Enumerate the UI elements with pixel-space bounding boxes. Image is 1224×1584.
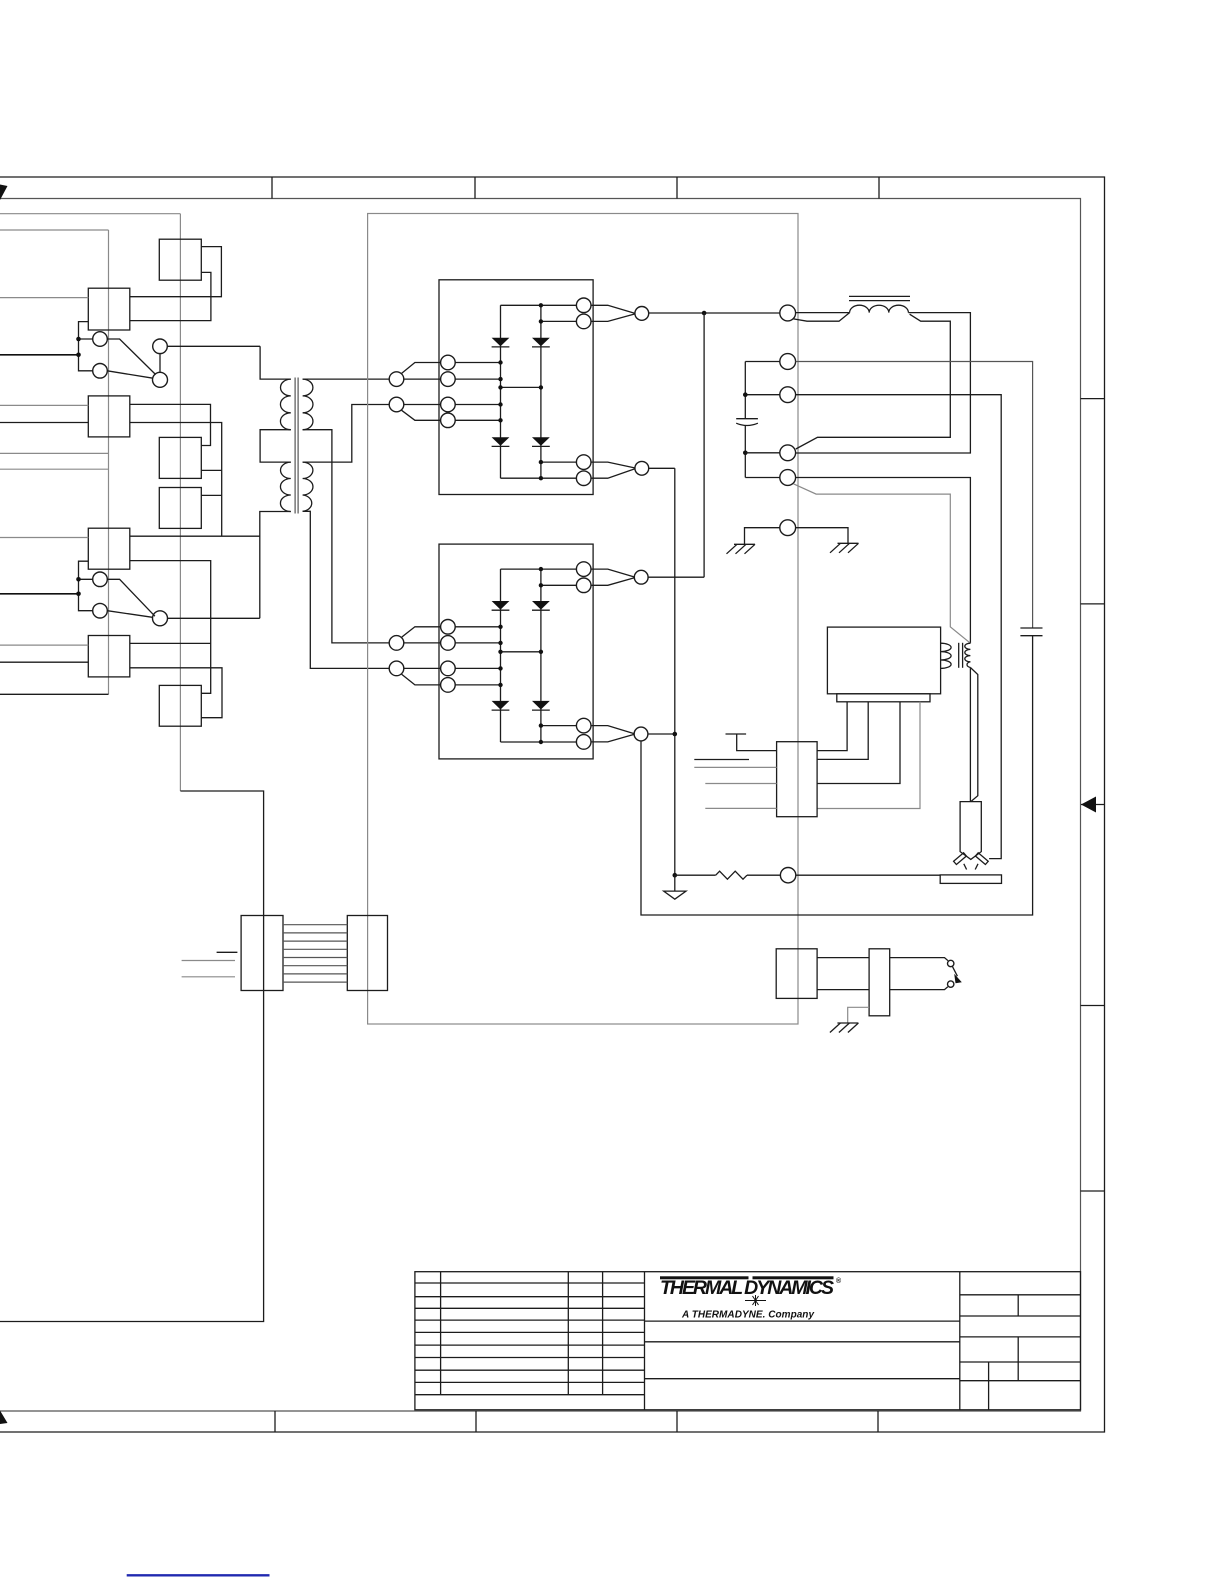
- pc board PCB1: [827, 627, 940, 694]
- wire L2 to M3: [404, 404, 441, 406]
- node S1B b: [76, 592, 81, 597]
- ribbon connector right: [347, 916, 387, 991]
- transformer T1 primary winding 2: [280, 462, 290, 511]
- node S1B a: [76, 577, 81, 582]
- wire PCB pin 2: [817, 702, 868, 760]
- inductor L1: [850, 305, 909, 312]
- node S1A a: [76, 337, 81, 342]
- wire V1 lower lead: [793, 313, 849, 322]
- wire BR2 mid rail: [501, 651, 541, 653]
- border zone ticks bottom: [275, 1411, 878, 1432]
- wire V2 to C2: [796, 362, 1033, 629]
- inductor L1 core: [849, 296, 910, 300]
- wire L1b to M1b: [402, 627, 441, 637]
- switch S1A bracket: [79, 322, 93, 371]
- plug P-L2: [389, 397, 404, 412]
- switch S2 contact 1: [948, 960, 954, 966]
- wire ribbon stub 2: [182, 960, 235, 962]
- wire input bus b: [0, 468, 109, 470]
- wire S1A common: [167, 345, 260, 347]
- wire T1 sec2 top to bridge1: [303, 405, 390, 463]
- chassis ground G3: [830, 1023, 859, 1033]
- capacitor C1: [736, 362, 758, 478]
- wire BR2 B1 tap: [541, 725, 577, 727]
- wire BR1 top rail: [501, 304, 577, 306]
- wire bus vertical x108: [108, 230, 110, 694]
- wire CSR to switch bottom: [890, 987, 948, 990]
- wire V5 left: [745, 477, 780, 479]
- resistor R1: [716, 871, 747, 879]
- wire BR2 bottom rail: [501, 741, 577, 743]
- wire ribbon stub 1: [217, 951, 238, 953]
- node S1A b: [76, 353, 81, 358]
- switch S1A blade 2: [107, 371, 153, 378]
- transformer T1 primary winding 1: [280, 379, 290, 430]
- plug P-M3b: [441, 661, 456, 676]
- diode D1: [492, 338, 510, 347]
- wire K3 right 1: [130, 404, 211, 445]
- plug P-T2b: [576, 578, 591, 593]
- wire input bus a: [0, 452, 109, 454]
- wire M2 tap: [455, 378, 500, 380]
- contactor K8: [159, 685, 201, 726]
- plug P-M2b: [441, 636, 456, 651]
- plug P-M1b: [441, 620, 456, 635]
- diode D8: [532, 701, 550, 710]
- switch S1A contact 1: [93, 332, 108, 347]
- node C1 bottom: [743, 451, 748, 456]
- wire V3 to torch tip: [796, 395, 1002, 859]
- plug P-E2b: [634, 727, 648, 741]
- plug P-V1: [780, 305, 796, 321]
- switch S1A link: [159, 354, 161, 373]
- border frame outer: [0, 177, 1105, 1432]
- diode D6: [492, 701, 510, 710]
- wire BR2 plus chevron: [591, 569, 634, 585]
- wire BR2 ladder right: [540, 569, 542, 742]
- svg-text:®: ®: [836, 1277, 842, 1285]
- wire T1 primary bottom lead: [260, 512, 291, 619]
- plug P-V3: [780, 387, 796, 403]
- transformer T2 primary: [941, 643, 952, 668]
- wire input K3 a: [0, 404, 88, 406]
- wire inductor to V4 straight: [796, 313, 971, 453]
- wire CSR ground: [848, 1007, 869, 1023]
- contactor K3: [88, 396, 130, 437]
- chassis ground G2: [830, 543, 859, 553]
- wire input K6: [0, 537, 88, 539]
- wire CN1 stub 2b: [694, 766, 776, 768]
- node C1 top: [743, 392, 748, 397]
- plug P-T1: [576, 298, 591, 313]
- wire V2 left: [745, 361, 780, 363]
- plug P-L1b: [389, 636, 404, 651]
- title block right cells: [960, 1295, 1081, 1410]
- wire input K7 a: [0, 644, 88, 646]
- diode D2: [492, 437, 510, 446]
- zone arrow right border: [1081, 797, 1105, 813]
- wire BR2 plus out: [648, 576, 704, 578]
- wire ribbon stub 3: [182, 976, 235, 978]
- wire PCB pin 4: [817, 702, 920, 809]
- logo Thermal Dynamics: [660, 1276, 842, 1299]
- plug P-W: [780, 868, 795, 883]
- wire K3 right 2: [130, 423, 222, 537]
- switch S1B contact 2: [93, 603, 108, 618]
- title block revision table: [415, 1272, 645, 1410]
- wire BR2 minus out: [648, 733, 675, 735]
- wire L1b to M2b: [404, 642, 441, 644]
- torch electrode: [960, 802, 981, 860]
- wire M4 tap: [455, 419, 500, 421]
- capacitor C2: [1020, 628, 1042, 636]
- wire T1 primary link: [260, 430, 291, 462]
- wire V6 left ground: [745, 528, 780, 545]
- wire T1 sec1 top to bridge1: [303, 378, 390, 380]
- terminal stub T: [726, 734, 777, 751]
- bridge rectifier BR1 box: [439, 280, 593, 495]
- node plus junction: [702, 311, 707, 316]
- wire BR1 T2 tap: [541, 320, 577, 322]
- plug P-V5: [780, 470, 796, 486]
- diode D5: [492, 601, 510, 610]
- wire T2 to electrode lead 1: [969, 668, 971, 802]
- wire BR1 mid rail: [501, 386, 541, 388]
- wire K5 right stub: [201, 494, 221, 496]
- plug P-T1b: [576, 562, 591, 577]
- relay CSR: [869, 949, 890, 1016]
- connector CN2: [776, 949, 817, 999]
- wire CN2 to CSR top: [817, 957, 869, 959]
- plug P-M2: [441, 372, 456, 387]
- wire CN1 stub 3: [705, 783, 776, 785]
- switch S1B bracket: [79, 561, 93, 611]
- diode D3: [532, 338, 550, 347]
- torch tip right: [975, 853, 988, 865]
- plug P-E1b: [634, 570, 648, 584]
- switch S1A pole: [153, 372, 168, 387]
- plug P-B1: [576, 455, 591, 470]
- wire BR1 minus out: [649, 467, 675, 469]
- title block middle cells: [645, 1272, 960, 1410]
- wire V4 left: [745, 452, 780, 454]
- wire bus bottom return: [0, 791, 264, 1322]
- switch S1A contact 2: [93, 364, 108, 379]
- wire T1 sec2 bottom to bridge2: [303, 511, 390, 668]
- node minus work junction: [673, 873, 678, 878]
- switch S1A blade 1: [107, 339, 155, 375]
- wire M2b tap: [455, 642, 500, 644]
- switch S2 contact 2: [948, 981, 954, 987]
- wire inductor to V4 diagonal: [796, 314, 951, 449]
- wire BR2 ladder left: [500, 569, 502, 742]
- plug P-M1: [441, 355, 456, 370]
- wire CN2 to CSR bottom: [817, 989, 869, 991]
- ribbon wires: [283, 925, 347, 982]
- torch tip foot right: [975, 864, 978, 870]
- ribbon connector left: [241, 916, 283, 991]
- zone arrow top-left: [0, 185, 8, 201]
- bridge rectifier BR2 box: [439, 544, 593, 759]
- plug P-M4: [441, 413, 456, 428]
- chassis ground G1: [727, 544, 756, 554]
- wire BR1 B1 tap: [541, 461, 577, 463]
- plug P-B1b: [576, 718, 591, 733]
- wire bus vertical x180: [179, 214, 181, 791]
- wire PCB pin 3: [817, 702, 900, 784]
- switch S1B contact 1: [93, 572, 108, 587]
- wire L2 to M4: [402, 410, 441, 420]
- torch tip foot left: [964, 864, 967, 870]
- work piece: [940, 875, 1001, 884]
- wire K6 right to transformer: [130, 535, 260, 537]
- diode D7: [532, 601, 550, 610]
- wire T1 primary top lead: [260, 346, 291, 379]
- torch tip left: [954, 853, 967, 865]
- wire resistor to plug: [747, 874, 780, 876]
- connector CN1: [777, 742, 818, 817]
- wire plus tie vertical: [703, 313, 705, 577]
- transformer T2 core: [959, 643, 963, 668]
- transformer T1 secondary winding 1: [303, 379, 313, 430]
- node BR2 dots: [498, 567, 543, 744]
- wire L2b to M4b: [402, 674, 441, 685]
- wire input K3 b: [0, 422, 88, 424]
- logo starburst: [745, 1295, 766, 1306]
- wire M3b tap: [455, 667, 500, 669]
- wire input K2: [0, 297, 88, 299]
- hyperlink underline: [127, 1574, 270, 1576]
- wire BR2 top rail: [501, 568, 577, 570]
- wire V5 to T2 diagonal: [793, 484, 970, 643]
- plug P-M4b: [441, 678, 456, 693]
- svg-text:A THERMADYNE. Company: A THERMADYNE. Company: [681, 1310, 814, 1321]
- wire PCB pin 1: [817, 702, 847, 751]
- wire work return path: [641, 636, 1033, 915]
- switch S2 lever: [952, 966, 961, 983]
- wire BR2 minus chevron: [591, 726, 634, 742]
- wire to resistor: [675, 874, 716, 876]
- wire input K7 b: [0, 661, 88, 663]
- wire T2 to electrode lead 2: [970, 668, 977, 802]
- wire V1 to inductor: [796, 312, 850, 314]
- wire CN1 stub 2: [694, 759, 749, 761]
- switch S1B blade 2: [107, 611, 152, 618]
- wire input L1: [0, 213, 180, 215]
- wire W1 right 2: [130, 272, 211, 320]
- svg-text:THERMAL DYNAMICS: THERMAL DYNAMICS: [660, 1277, 834, 1299]
- wire BR1 ladder right: [540, 305, 542, 478]
- node BR1 dots: [498, 303, 543, 480]
- wire to work: [796, 874, 940, 876]
- plug P-L1: [389, 372, 404, 387]
- zone arrow bottom-left: [0, 1411, 8, 1425]
- border zone ticks right: [1081, 399, 1105, 1191]
- wire W1 right 1: [130, 247, 222, 297]
- wire K7 right stub: [130, 642, 211, 644]
- wire L2b to M3b: [404, 667, 441, 669]
- wire input bus bottom: [0, 693, 109, 695]
- wire M1b tap: [455, 626, 500, 628]
- plug P-E2: [635, 461, 649, 475]
- plug P-T2: [576, 314, 591, 329]
- contactor K2: [88, 288, 130, 330]
- wire S1B common: [168, 617, 260, 619]
- contactor W1: [159, 239, 201, 280]
- wire K6 right 2: [130, 561, 211, 694]
- transformer T1 core: [295, 378, 298, 514]
- switch S1A contact 3: [153, 339, 168, 354]
- wire V3 left: [745, 394, 780, 396]
- contactor K6: [88, 528, 130, 569]
- plug P-V4: [780, 445, 796, 461]
- wire M1 tap: [455, 362, 500, 364]
- main enclosure box: [368, 214, 798, 1025]
- wire K7 right 2: [130, 668, 222, 718]
- plug P-V6: [780, 520, 796, 536]
- wire BR1 bottom rail: [501, 477, 577, 479]
- transformer T2 secondary: [965, 643, 971, 667]
- wire CN1 stub 4: [705, 807, 776, 809]
- plug P-V2: [780, 354, 796, 370]
- border zone ticks top: [272, 177, 879, 199]
- wire BR2 T2 tap: [541, 584, 577, 586]
- earth ground: [664, 875, 686, 899]
- wire V5 to T2 straight: [796, 478, 971, 644]
- wire BR1 minus chevron: [591, 462, 635, 478]
- wire BR1 ladder left: [500, 305, 502, 478]
- wire input L2: [0, 229, 109, 231]
- plug P-M3: [441, 397, 456, 412]
- diode D4: [532, 437, 550, 446]
- contactor K7: [88, 636, 130, 677]
- wire M4b tap: [455, 684, 500, 686]
- plug P-E1: [635, 307, 649, 321]
- contactor K4: [159, 437, 201, 478]
- wire DC plus bus: [649, 312, 780, 314]
- wire V6 right ground: [796, 528, 848, 544]
- node minus junction: [673, 732, 678, 737]
- wire T1 sec1 bottom to bridge2: [303, 430, 390, 643]
- wire L1 to M1: [402, 363, 441, 374]
- transformer T1 secondary winding 2: [303, 462, 313, 511]
- wire K4 right stub: [201, 469, 221, 471]
- switch S1B pole: [153, 611, 168, 626]
- contactor K5: [159, 488, 201, 529]
- wire L1 to M2: [404, 378, 441, 380]
- plug P-B2: [576, 471, 591, 486]
- plug P-B2b: [576, 735, 591, 750]
- plug P-L2b: [389, 661, 404, 676]
- wire CSR to switch top: [890, 958, 948, 961]
- switch S1B blade 1: [107, 579, 155, 616]
- wire BR1 plus chevron: [591, 305, 635, 321]
- border frame inner: [0, 199, 1081, 1412]
- wire minus bus vertical: [674, 468, 676, 875]
- pc board connector strip: [837, 694, 930, 702]
- wire M3 tap: [455, 404, 500, 406]
- title block outline: [415, 1272, 1081, 1410]
